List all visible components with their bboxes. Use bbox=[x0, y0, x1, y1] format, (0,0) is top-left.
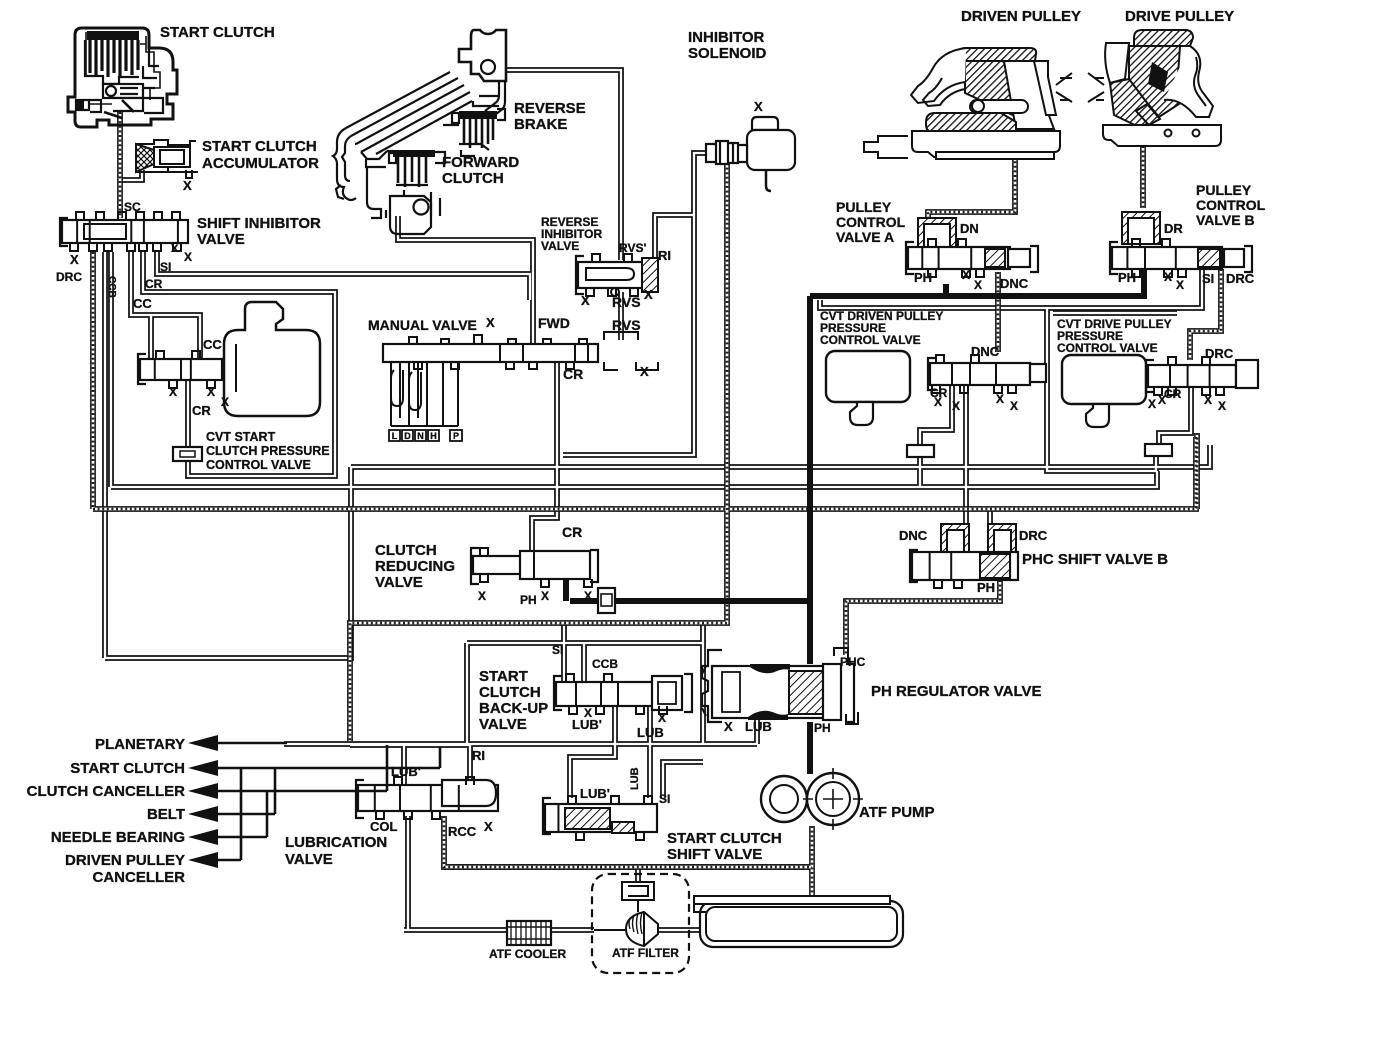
svg-text:LUBRICATION: LUBRICATION bbox=[285, 834, 387, 851]
svg-text:CANCELLER: CANCELLER bbox=[93, 869, 186, 886]
svg-text:CR: CR bbox=[563, 366, 583, 382]
svg-text:BACK-UP: BACK-UP bbox=[479, 700, 548, 717]
svg-text:CLUTCH CANCELLER: CLUTCH CANCELLER bbox=[27, 783, 185, 800]
svg-text:SI: SI bbox=[1202, 271, 1214, 286]
svg-text:SHIFT VALVE: SHIFT VALVE bbox=[667, 846, 762, 863]
svg-text:VALVE: VALVE bbox=[285, 851, 333, 868]
svg-text:LUB': LUB' bbox=[391, 764, 421, 779]
svg-text:CONTROL VALVE: CONTROL VALVE bbox=[206, 458, 311, 472]
svg-text:PULLEY: PULLEY bbox=[1196, 182, 1252, 198]
svg-text:X: X bbox=[974, 278, 982, 292]
svg-text:P: P bbox=[453, 431, 459, 441]
svg-text:VALVE B: VALVE B bbox=[1196, 212, 1255, 228]
svg-text:RVS': RVS' bbox=[619, 241, 646, 255]
svg-text:X: X bbox=[171, 243, 179, 255]
svg-text:CONTROL: CONTROL bbox=[1196, 197, 1266, 213]
svg-text:CONTROL VALVE: CONTROL VALVE bbox=[1057, 341, 1158, 355]
svg-text:CCB: CCB bbox=[106, 276, 117, 298]
svg-text:LUB': LUB' bbox=[572, 717, 602, 732]
svg-text:X: X bbox=[1164, 270, 1172, 284]
svg-text:X: X bbox=[1148, 397, 1156, 411]
svg-text:NEEDLE BEARING: NEEDLE BEARING bbox=[51, 829, 185, 846]
svg-text:X: X bbox=[640, 364, 649, 379]
svg-text:SI: SI bbox=[552, 643, 563, 657]
svg-text:START: START bbox=[479, 668, 528, 685]
svg-text:X: X bbox=[962, 268, 970, 282]
svg-text:X: X bbox=[581, 293, 590, 308]
svg-text:X: X bbox=[478, 589, 486, 603]
svg-text:RVS: RVS bbox=[612, 294, 641, 310]
svg-text:PLANETARY: PLANETARY bbox=[95, 736, 185, 753]
svg-text:DRC: DRC bbox=[1226, 271, 1255, 286]
svg-text:DNC: DNC bbox=[1000, 276, 1029, 291]
svg-text:COL: COL bbox=[370, 819, 398, 834]
svg-text:INHIBITOR: INHIBITOR bbox=[688, 29, 765, 46]
svg-text:X: X bbox=[1218, 399, 1226, 413]
svg-text:CONTROL VALVE: CONTROL VALVE bbox=[820, 333, 921, 347]
svg-text:X: X bbox=[1176, 278, 1184, 292]
svg-text:START CLUTCH: START CLUTCH bbox=[70, 760, 185, 777]
svg-text:CR: CR bbox=[562, 524, 582, 540]
svg-text:REDUCING: REDUCING bbox=[375, 558, 455, 575]
svg-text:SI: SI bbox=[659, 792, 670, 806]
svg-text:X: X bbox=[70, 252, 79, 267]
svg-text:X: X bbox=[169, 385, 177, 399]
svg-text:ATF PUMP: ATF PUMP bbox=[859, 804, 935, 821]
svg-text:RI: RI bbox=[658, 248, 671, 263]
svg-text:DN: DN bbox=[960, 221, 979, 236]
svg-text:X: X bbox=[541, 589, 549, 603]
svg-text:X: X bbox=[644, 287, 653, 302]
svg-text:START CLUTCH: START CLUTCH bbox=[160, 24, 275, 41]
svg-text:X: X bbox=[183, 178, 192, 193]
svg-text:DNC: DNC bbox=[899, 528, 928, 543]
svg-text:BELT: BELT bbox=[147, 806, 185, 823]
svg-text:PH: PH bbox=[914, 270, 932, 285]
svg-text:ACCUMULATOR: ACCUMULATOR bbox=[202, 155, 319, 172]
svg-text:CLUTCH: CLUTCH bbox=[442, 170, 504, 187]
svg-text:DRIVEN PULLEY: DRIVEN PULLEY bbox=[961, 8, 1081, 25]
svg-text:PHC SHIFT VALVE B: PHC SHIFT VALVE B bbox=[1022, 551, 1168, 568]
svg-text:SHIFT INHIBITOR: SHIFT INHIBITOR bbox=[197, 215, 321, 232]
svg-text:X: X bbox=[754, 99, 763, 114]
svg-text:LUB: LUB bbox=[629, 767, 641, 790]
svg-text:CLUTCH: CLUTCH bbox=[479, 684, 541, 701]
svg-text:DRIVEN PULLEY: DRIVEN PULLEY bbox=[65, 852, 185, 869]
svg-text:X: X bbox=[1158, 393, 1166, 407]
svg-text:DRIVE PULLEY: DRIVE PULLEY bbox=[1125, 8, 1234, 25]
svg-text:X: X bbox=[221, 395, 229, 409]
svg-text:VALVE: VALVE bbox=[197, 231, 245, 248]
svg-text:PH: PH bbox=[814, 721, 831, 735]
svg-text:SC: SC bbox=[124, 200, 141, 214]
svg-text:DRC: DRC bbox=[1205, 346, 1234, 361]
svg-text:CC: CC bbox=[133, 296, 152, 311]
svg-text:X: X bbox=[934, 395, 942, 409]
svg-text:RCC: RCC bbox=[448, 824, 477, 839]
svg-text:FWD: FWD bbox=[538, 315, 570, 331]
svg-text:CR: CR bbox=[1164, 387, 1182, 401]
svg-text:X: X bbox=[724, 719, 733, 734]
svg-text:CCB: CCB bbox=[592, 657, 618, 671]
svg-text:X: X bbox=[1010, 399, 1018, 413]
svg-text:LUB: LUB bbox=[745, 719, 772, 734]
svg-text:VALVE: VALVE bbox=[479, 716, 527, 733]
svg-text:PH: PH bbox=[977, 580, 995, 595]
svg-text:X: X bbox=[1204, 393, 1212, 407]
svg-text:L: L bbox=[392, 431, 398, 441]
svg-text:N: N bbox=[417, 431, 424, 441]
svg-text:LUB: LUB bbox=[637, 725, 664, 740]
svg-text:X: X bbox=[996, 392, 1004, 406]
svg-text:PH: PH bbox=[520, 593, 537, 607]
svg-text:DRC: DRC bbox=[1019, 528, 1048, 543]
svg-text:DRC: DRC bbox=[56, 270, 82, 284]
svg-text:CR: CR bbox=[145, 277, 163, 291]
svg-text:FORWARD: FORWARD bbox=[442, 154, 519, 171]
svg-text:CONTROL: CONTROL bbox=[836, 214, 906, 230]
svg-text:DNC: DNC bbox=[971, 344, 1000, 359]
svg-text:H: H bbox=[430, 431, 437, 441]
svg-text:CVT START: CVT START bbox=[206, 430, 276, 444]
svg-text:CLUTCH: CLUTCH bbox=[375, 542, 437, 559]
svg-text:LUB': LUB' bbox=[580, 786, 610, 801]
svg-text:X: X bbox=[184, 250, 192, 264]
svg-text:CR: CR bbox=[192, 403, 211, 418]
svg-text:D: D bbox=[404, 431, 411, 441]
svg-text:PH: PH bbox=[1118, 270, 1136, 285]
svg-text:SOLENOID: SOLENOID bbox=[688, 45, 767, 62]
svg-text:X: X bbox=[207, 385, 215, 399]
svg-text:X: X bbox=[952, 399, 960, 413]
svg-text:PULLEY: PULLEY bbox=[836, 199, 892, 215]
svg-text:DR: DR bbox=[1164, 221, 1183, 236]
svg-text:X: X bbox=[658, 711, 666, 725]
svg-text:SI: SI bbox=[160, 260, 171, 274]
svg-text:START CLUTCH: START CLUTCH bbox=[667, 830, 782, 847]
svg-text:RI: RI bbox=[472, 748, 485, 763]
svg-text:X: X bbox=[584, 589, 592, 603]
svg-text:BRAKE: BRAKE bbox=[514, 116, 567, 133]
svg-text:ATF COOLER: ATF COOLER bbox=[489, 947, 566, 961]
svg-text:VALVE: VALVE bbox=[541, 239, 579, 253]
svg-text:START CLUTCH: START CLUTCH bbox=[202, 138, 317, 155]
svg-text:PHC: PHC bbox=[840, 655, 866, 669]
svg-text:X: X bbox=[486, 315, 495, 330]
svg-text:MANUAL VALVE: MANUAL VALVE bbox=[368, 317, 477, 333]
svg-text:VALVE A: VALVE A bbox=[836, 229, 894, 245]
svg-text:X: X bbox=[484, 819, 493, 834]
svg-text:RVS: RVS bbox=[612, 317, 641, 333]
svg-text:VALVE: VALVE bbox=[375, 574, 423, 591]
svg-text:PH REGULATOR VALVE: PH REGULATOR VALVE bbox=[871, 683, 1042, 700]
svg-text:CC: CC bbox=[203, 337, 222, 352]
svg-text:CLUTCH PRESSURE: CLUTCH PRESSURE bbox=[206, 444, 330, 458]
svg-text:REVERSE: REVERSE bbox=[514, 100, 586, 117]
svg-text:ATF FILTER: ATF FILTER bbox=[612, 946, 679, 960]
